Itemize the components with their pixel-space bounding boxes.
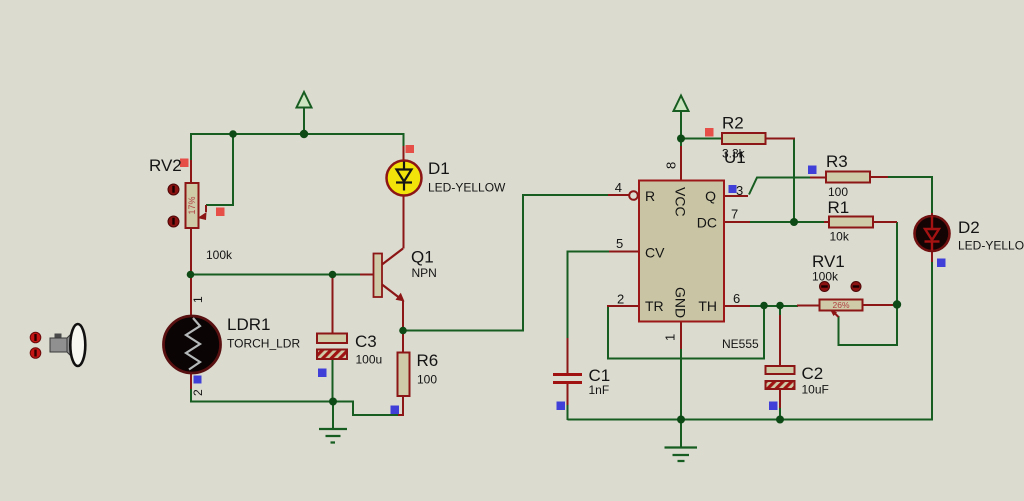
svg-text:C2: C2 xyxy=(802,364,824,383)
svg-text:D2: D2 xyxy=(958,218,980,237)
svg-text:R2: R2 xyxy=(722,114,744,133)
svg-text:DC: DC xyxy=(697,215,717,231)
svg-text:10uF: 10uF xyxy=(802,383,829,397)
svg-text:NPN: NPN xyxy=(412,266,437,280)
svg-text:2: 2 xyxy=(617,292,624,307)
svg-text:RV1: RV1 xyxy=(812,252,845,271)
svg-text:NE555: NE555 xyxy=(722,337,759,351)
svg-text:TH: TH xyxy=(698,298,717,314)
svg-text:C3: C3 xyxy=(355,332,377,351)
svg-text:100: 100 xyxy=(417,373,437,387)
svg-text:Q: Q xyxy=(705,188,716,204)
svg-text:TR: TR xyxy=(645,298,664,314)
svg-text:R3: R3 xyxy=(826,152,848,171)
svg-text:1: 1 xyxy=(663,334,678,341)
svg-text:100u: 100u xyxy=(356,353,383,367)
svg-text:100k: 100k xyxy=(812,270,839,284)
svg-text:GND: GND xyxy=(673,287,689,318)
svg-text:7: 7 xyxy=(731,207,738,222)
svg-text:RV2: RV2 xyxy=(149,156,182,175)
svg-text:LDR1: LDR1 xyxy=(227,315,270,334)
svg-text:10k: 10k xyxy=(830,230,850,244)
svg-text:VCC: VCC xyxy=(673,187,689,217)
svg-text:R: R xyxy=(645,188,655,204)
svg-text:LED-YELLOW: LED-YELLOW xyxy=(428,181,506,195)
svg-text:D1: D1 xyxy=(428,159,450,178)
svg-text:LED-YELLOW: LED-YELLOW xyxy=(958,239,1024,253)
svg-text:3: 3 xyxy=(736,183,743,198)
svg-text:1: 1 xyxy=(191,296,205,303)
svg-text:26%: 26% xyxy=(832,300,849,310)
svg-text:Q1: Q1 xyxy=(411,248,434,267)
svg-text:1nF: 1nF xyxy=(589,383,610,397)
svg-text:8: 8 xyxy=(664,162,679,169)
svg-text:5: 5 xyxy=(616,236,623,251)
svg-text:TORCH_LDR: TORCH_LDR xyxy=(227,337,300,351)
svg-text:100: 100 xyxy=(828,185,848,199)
svg-text:100k: 100k xyxy=(206,248,233,262)
svg-text:R1: R1 xyxy=(828,198,850,217)
svg-text:6: 6 xyxy=(733,291,740,306)
svg-text:CV: CV xyxy=(645,245,665,261)
svg-text:17%: 17% xyxy=(187,196,197,214)
svg-text:4: 4 xyxy=(615,180,622,195)
svg-text:U1: U1 xyxy=(724,148,746,167)
svg-text:2: 2 xyxy=(191,389,205,396)
svg-text:R6: R6 xyxy=(417,351,439,370)
